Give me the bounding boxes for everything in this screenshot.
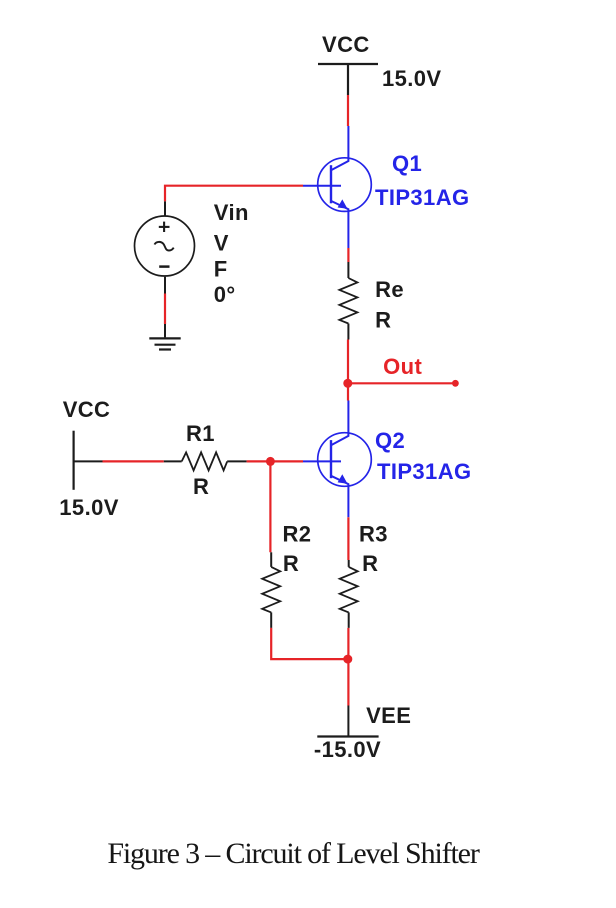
svg-text:VCC: VCC <box>63 397 111 422</box>
wire node to VEE <box>347 659 349 705</box>
power VCC (top) <box>318 64 378 95</box>
transistor Q1 <box>303 126 371 248</box>
resistor R3 <box>340 560 358 628</box>
resistor R2 <box>262 552 280 628</box>
wire Vin to ground <box>164 294 166 325</box>
wire Out node to Q2 collector <box>347 383 349 400</box>
resistor Re <box>339 262 357 340</box>
svg-text:R: R <box>362 551 378 576</box>
wire R1 to Q2 base <box>247 460 303 462</box>
svg-text:Out: Out <box>383 354 422 379</box>
svg-text:R: R <box>283 551 299 576</box>
svg-text:Figure 3 – Circuit of Level Sh: Figure 3 – Circuit of Level Shifter <box>107 837 479 870</box>
node Out end <box>452 380 459 387</box>
ground <box>149 338 180 349</box>
svg-text:R: R <box>193 474 209 499</box>
wire Out stub <box>348 382 456 384</box>
wire R3 to VEE node <box>347 628 349 659</box>
wire Vin to Q1 base <box>165 186 303 202</box>
svg-text:0°: 0° <box>214 282 236 307</box>
node junction R2/R3/VEE <box>343 655 352 664</box>
svg-text:Q1: Q1 <box>392 151 422 176</box>
wire VCC to Q1 collector <box>347 95 349 126</box>
svg-text:R: R <box>375 308 391 333</box>
power VEE <box>317 706 378 737</box>
svg-text:R1: R1 <box>186 421 215 446</box>
resistor R1 <box>164 452 247 470</box>
source Vin <box>135 201 195 293</box>
wire junction to R2 <box>269 461 271 552</box>
svg-text:-15.0V: -15.0V <box>314 737 381 762</box>
power VCC (left) <box>74 431 103 490</box>
wire Q2 emitter to R3 <box>347 517 349 560</box>
svg-text:Vin: Vin <box>214 200 249 225</box>
svg-text:V: V <box>214 231 229 256</box>
svg-text:TIP31AG: TIP31AG <box>377 459 472 484</box>
wire Q1 emitter to Re <box>347 248 349 262</box>
svg-text:TIP31AG: TIP31AG <box>375 185 470 210</box>
svg-text:15.0V: 15.0V <box>59 495 119 520</box>
svg-text:Re: Re <box>375 277 404 302</box>
svg-text:F: F <box>214 257 228 282</box>
svg-text:15.0V: 15.0V <box>382 66 442 91</box>
wire VCC to R1 <box>103 460 164 462</box>
svg-text:VEE: VEE <box>366 703 411 728</box>
svg-text:Q2: Q2 <box>375 428 405 453</box>
svg-text:R2: R2 <box>283 521 312 546</box>
svg-text:R3: R3 <box>359 521 388 546</box>
node junction R1/R2/base <box>266 457 275 466</box>
transistor Q2 <box>303 401 371 518</box>
svg-text:VCC: VCC <box>322 32 370 57</box>
wire R2 to VEE rail <box>271 628 348 659</box>
node Out <box>343 379 352 388</box>
wire Re to Out node <box>347 340 349 384</box>
